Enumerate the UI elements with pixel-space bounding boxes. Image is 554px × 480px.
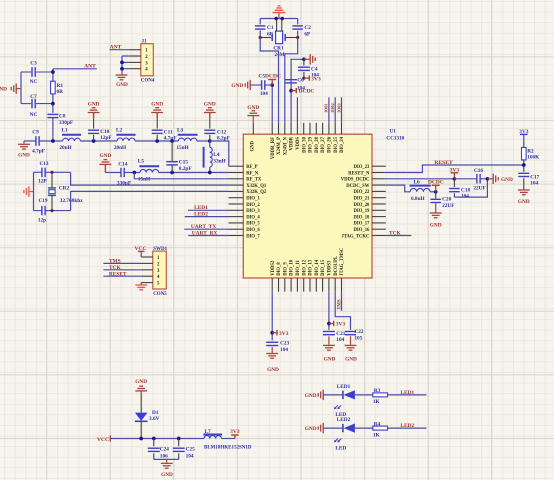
ground (C21) [323, 344, 335, 346]
wire UART_TX net [184, 228, 228, 230]
power port 3V3 (VDDS2) [272, 332, 277, 334]
wire VDDS stub [296, 97, 298, 123]
svg-text:GND: GND [305, 393, 317, 399]
svg-text:GND: GND [518, 199, 530, 205]
crystal CR1 24M [260, 37, 271, 39]
capacitor C15 8.2pF (between rows) [171, 141, 173, 162]
svg-text:X24M_N: X24M_N [283, 136, 288, 155]
wire R3 to net LED1 [388, 394, 427, 396]
capacitor C7 [21, 103, 31, 105]
svg-text:LED2: LED2 [400, 423, 414, 429]
svg-text:DIO_9: DIO_9 [283, 262, 288, 276]
pin VDDS2 (bottom) [271, 278, 273, 292]
pin DIO_25 (top) [334, 123, 336, 134]
inductor L5 15nH [139, 165, 159, 167]
pin 1 of J1 [128, 49, 141, 51]
svg-text:DIO_29: DIO_29 [309, 136, 314, 153]
svg-text:22UF: 22UF [473, 186, 485, 192]
svg-text:UART_RX: UART_RX [192, 231, 218, 237]
power port DCDC (VDDR_RF) [271, 80, 273, 85]
svg-text:12p: 12p [38, 217, 46, 223]
ground (C5 left) [249, 80, 251, 90]
pin DIO_17 (right) [372, 222, 386, 224]
svg-text:C8: C8 [59, 114, 66, 120]
svg-text:GND: GND [324, 356, 336, 362]
ground (crystal rail, bright red) [29, 191, 33, 193]
node X1 bottom [50, 209, 53, 212]
wire C3/C7 left column [20, 72, 22, 104]
svg-text:ANT: ANT [110, 45, 122, 51]
pin DCOUPL (bottom) [334, 278, 336, 292]
pin JTAG_TCKC (right) [372, 235, 386, 237]
wire L1-L2 [80, 140, 117, 142]
svg-text:CC1310: CC1310 [386, 135, 404, 141]
capacitor C22 105 [345, 331, 356, 333]
pin DIO_9 (bottom) [284, 278, 286, 292]
svg-text:3V3: 3V3 [336, 322, 346, 328]
pin X32K_Q1 (left) [229, 184, 244, 186]
pin DIO_18 (right) [372, 216, 386, 218]
svg-text:BLM18HKE152SN1D: BLM18HKE152SN1D [204, 446, 252, 451]
capacitor C1 6P [259, 19, 261, 25]
wire LED1 net [188, 209, 229, 211]
svg-text:TCK: TCK [109, 265, 121, 271]
ground (CR1 top, bright red) [278, 13, 280, 19]
wire R2 to C17 [523, 160, 525, 172]
svg-text:24M: 24M [274, 52, 284, 58]
ground (C17) [518, 189, 530, 191]
capacitor C17 104 [518, 172, 529, 174]
svg-text:DIO_27: DIO_27 [321, 136, 326, 153]
wire RF_TX branch [134, 173, 228, 179]
capacitor C13 12P [34, 171, 42, 173]
pin DIO_28 (top) [315, 123, 317, 134]
svg-text:6P: 6P [304, 32, 311, 38]
crystal CR2 32.768khz [51, 172, 53, 188]
svg-text:C22: C22 [354, 329, 363, 335]
svg-text:GND: GND [250, 140, 255, 151]
wire L6 to node [430, 191, 436, 193]
wire C9-L1 [39, 140, 63, 142]
svg-text:C19: C19 [38, 198, 47, 204]
svg-text:C3: C3 [30, 61, 37, 67]
pin DIO_7 (left) [229, 235, 244, 237]
node C4 top [302, 57, 306, 61]
svg-text:DIO_4: DIO_4 [246, 215, 260, 220]
svg-text:RF_TX: RF_TX [246, 178, 262, 183]
power port 3V3 (L7) [234, 435, 236, 438]
pin VDDR_RF (top) [271, 123, 273, 134]
pin 3 of SWD1 [141, 269, 153, 271]
ground (right of C4 node) [304, 58, 310, 60]
svg-text:GND: GND [501, 177, 513, 183]
svg-text:106: 106 [160, 453, 168, 459]
pin GND (top) [252, 123, 254, 134]
svg-text:105: 105 [354, 335, 362, 341]
svg-text:C7: C7 [30, 94, 37, 100]
svg-text:TCK: TCK [389, 230, 401, 236]
power port DCDC (VDDR) [289, 89, 293, 93]
svg-text:X24M_P: X24M_P [277, 137, 282, 155]
wire ANT to J1 pin1 [110, 49, 129, 51]
pin DIO_3 (left) [229, 209, 244, 211]
svg-text:R3: R3 [374, 388, 381, 394]
svg-text:C23: C23 [280, 341, 289, 347]
svg-text:SWD1: SWD1 [153, 247, 167, 252]
svg-text:0R: 0R [57, 89, 64, 95]
wire LED2 to R4 [355, 427, 373, 429]
svg-text:RESET: RESET [434, 160, 453, 166]
svg-text:C9: C9 [32, 130, 39, 136]
ground above C12 [204, 112, 216, 114]
pin DIO_8 (bottom) [278, 278, 280, 292]
svg-text:22UF: 22UF [442, 203, 454, 209]
ground (C22) [345, 344, 357, 346]
svg-text:DCDC_SW: DCDC_SW [346, 184, 369, 189]
svg-text:DIO_11: DIO_11 [296, 260, 301, 276]
wire JTAG_TMSC / TMS net [341, 292, 343, 311]
ground (SWD1) [135, 284, 147, 286]
svg-text:GND: GND [161, 472, 173, 478]
capacitor C14 330pF [120, 168, 122, 177]
wire LED1 to R3 [355, 394, 373, 396]
svg-text:20nH: 20nH [59, 145, 72, 151]
wire to X32K_Q1 [71, 172, 229, 185]
capacitor C19 12p [34, 210, 42, 212]
capacitor C23 104 [266, 341, 278, 343]
svg-text:DIO_6: DIO_6 [246, 228, 260, 233]
svg-text:DIO_1: DIO_1 [246, 197, 260, 202]
svg-text:3V3: 3V3 [311, 76, 321, 82]
pin DIO_2 (left) [229, 203, 244, 205]
svg-text:C13: C13 [39, 161, 48, 167]
svg-text:RESET_N: RESET_N [348, 171, 370, 176]
ground (J1) [121, 73, 123, 74]
svg-text:DIO_26: DIO_26 [328, 136, 333, 153]
svg-text:GND: GND [204, 101, 216, 107]
svg-text:DIO_19: DIO_19 [354, 209, 371, 214]
pin VDDR (top) [290, 123, 292, 134]
pin JTAG_TMSC (bottom) [341, 278, 343, 292]
capacitor C8 330pF [47, 113, 58, 115]
svg-text:DIO_5: DIO_5 [246, 222, 260, 227]
connector SWD1 CON5 [153, 251, 167, 289]
wire gnd to LED2 [323, 427, 343, 429]
svg-text:GND: GND [0, 87, 7, 93]
wire C18 bottom loop [454, 179, 487, 197]
wire gnd to LED1 [323, 394, 343, 396]
power port 3V3 (C4 bottom) [302, 77, 305, 80]
svg-text:X32K_Q2: X32K_Q2 [246, 190, 267, 195]
svg-text:1K: 1K [373, 432, 381, 438]
pin 2 of SWD1 [141, 262, 153, 264]
svg-text:X32K_Q1: X32K_Q1 [246, 184, 267, 189]
LED LED2 [342, 424, 344, 432]
svg-text:3V3: 3V3 [230, 429, 240, 435]
svg-text:GND: GND [345, 356, 357, 362]
svg-text:VCC: VCC [135, 246, 147, 252]
op-amp U1 : CC1310 IC body [243, 134, 372, 278]
power port 3V3 (VDDS_DCDC) [453, 173, 455, 179]
svg-text:3V3: 3V3 [279, 331, 289, 337]
CR1 case pins to gnd rail [276, 19, 278, 32]
svg-text:8.2pF: 8.2pF [179, 166, 192, 172]
svg-text:UART_TX: UART_TX [191, 224, 216, 230]
wire TCK net (JTAG_TCKC) [386, 235, 412, 237]
node C10 [92, 139, 96, 143]
wire DIO_24 net IO03 [341, 97, 343, 123]
svg-text:CR2: CR2 [59, 185, 70, 191]
svg-text:C14: C14 [118, 161, 127, 167]
capacitor C21 104 [323, 331, 335, 333]
resistor R2 100K [522, 147, 527, 160]
svg-text:330pF: 330pF [59, 120, 73, 126]
pin DIO_26 (top) [328, 123, 330, 134]
svg-text:RF_P: RF_P [246, 165, 258, 170]
svg-text:C21: C21 [336, 331, 345, 337]
svg-text:L6: L6 [414, 179, 421, 185]
svg-text:L3: L3 [177, 128, 184, 134]
pin DIO_19 (right) [372, 209, 386, 211]
svg-text:RESET: RESET [109, 272, 127, 278]
inductor L3 15nH [178, 134, 198, 136]
pin X24M_P (top) [278, 123, 280, 134]
capacitor C2 6P [297, 19, 299, 25]
wire SWD1 pin5 to gnd [140, 283, 142, 285]
inductor L2 20nH [116, 134, 135, 136]
resistor R3 1K [373, 393, 388, 397]
pin RESET_N (right) [372, 172, 386, 174]
svg-text:DIO_24: DIO_24 [340, 136, 345, 153]
ground (IC GND pin) [252, 116, 254, 123]
svg-text:LED2: LED2 [337, 417, 351, 423]
pin DIO_22 (right) [372, 190, 386, 192]
wire R4 to net LED2 [388, 427, 427, 429]
svg-text:LED1: LED1 [337, 384, 351, 390]
svg-text:C15: C15 [179, 160, 188, 166]
wire DIO_25 net IO02 [334, 97, 336, 123]
wire L3-C12 node [197, 140, 210, 142]
wire DIO_26 net IO01 [328, 97, 330, 123]
svg-text:DIO_3: DIO_3 [246, 209, 260, 214]
svg-text:IO02: IO02 [330, 103, 335, 112]
svg-text:DIO_7: DIO_7 [246, 234, 260, 239]
svg-text:C17: C17 [530, 174, 539, 180]
pin DIO_1 (left) [229, 197, 244, 199]
svg-text:TMS: TMS [337, 299, 342, 310]
svg-text:15nH: 15nH [176, 145, 189, 151]
svg-text:VDDS2: VDDS2 [271, 260, 276, 276]
wire C14-L5 [124, 172, 140, 174]
svg-text:L5: L5 [138, 159, 145, 165]
svg-text:C4: C4 [311, 66, 318, 72]
capacitor C6 104 [285, 79, 297, 81]
wire to X32K_Q2 [71, 191, 229, 210]
pin 2 of J1 [128, 55, 141, 57]
wire UART_RX net [188, 235, 228, 237]
wire R1 to C8 [52, 94, 54, 113]
ground (C16 right) [486, 177, 490, 181]
capacitor C11 4.7pF (shunt to gnd) [156, 135, 158, 141]
svg-text:LED2: LED2 [194, 212, 208, 218]
resistor R4 1K [373, 426, 388, 430]
svg-text:DIO_8: DIO_8 [277, 262, 282, 276]
svg-text:104: 104 [280, 347, 288, 353]
svg-text:JTAG_TMSC: JTAG_TMSC [340, 247, 345, 276]
pin 4 of SWD1 [141, 275, 153, 277]
pin DIO_29 (top) [309, 123, 311, 134]
pin DIO_24 (top) [341, 123, 343, 134]
svg-text:U1: U1 [390, 129, 397, 135]
svg-text:15nH: 15nH [138, 177, 151, 183]
pin DIO_27 (top) [322, 123, 324, 134]
pin 5 of SWD1 [141, 282, 153, 284]
wire D1 to VCC rail [140, 421, 142, 438]
wire C24/C25 gnd link [154, 458, 179, 460]
svg-text:L1: L1 [62, 128, 69, 134]
svg-text:DIO_15: DIO_15 [321, 259, 326, 276]
svg-text:IO01: IO01 [324, 103, 329, 112]
svg-text:DIO_23: DIO_23 [354, 165, 371, 170]
wire CR1 to X24M_P [260, 38, 278, 123]
svg-text:C25: C25 [186, 447, 195, 453]
wire TMS net [103, 262, 141, 264]
capacitor C10 12pF (shunt to gnd) [93, 135, 95, 141]
resistor R1 0R [51, 81, 56, 94]
svg-text:DIO_28: DIO_28 [315, 136, 320, 153]
svg-text:4.7pF: 4.7pF [32, 148, 45, 154]
pin DCDC_SW (right) [372, 184, 386, 186]
svg-text:DIO_17: DIO_17 [354, 222, 371, 227]
pin DIO_6 (left) [229, 228, 244, 230]
wire LED2 net [185, 216, 229, 218]
wire gnd rail over CR1 [260, 18, 298, 20]
pin RF_TX (left) [229, 178, 244, 180]
wire RESET net [103, 275, 141, 277]
svg-text:GND: GND [305, 426, 317, 432]
svg-text:DIO_13: DIO_13 [309, 259, 314, 276]
wire row1 to RF_P [210, 141, 229, 166]
pin DIO_30 (top) [303, 123, 305, 134]
svg-text:6.8uH: 6.8uH [411, 196, 426, 202]
svg-text:DIO_18: DIO_18 [354, 215, 371, 220]
svg-text:VCC: VCC [97, 437, 109, 443]
svg-text:VDDR_RF: VDDR_RF [271, 137, 276, 159]
svg-text:DIO_10: DIO_10 [290, 259, 295, 276]
svg-text:CON5: CON5 [153, 292, 167, 297]
pin RF_P (left) [229, 165, 244, 167]
svg-text:DIO_14: DIO_14 [315, 259, 320, 276]
svg-text:C16: C16 [474, 168, 483, 174]
svg-text:DIO_21: DIO_21 [354, 197, 371, 202]
inductor L1 20nH [62, 134, 81, 136]
wire VDDR_RF column [271, 85, 273, 123]
svg-text:VDDS: VDDS [296, 137, 301, 150]
capacitor C24 106 [153, 439, 155, 447]
pin 3 of J1 [128, 61, 141, 63]
pin DIO_23 (right) [372, 165, 386, 167]
capacitor C18 104 [453, 179, 455, 187]
svg-text:DCDC: DCDC [265, 74, 281, 80]
svg-text:104: 104 [530, 181, 538, 187]
inductor L6 6.8uH [410, 185, 431, 187]
node C11 [155, 139, 159, 143]
svg-text:DIO_2: DIO_2 [246, 203, 260, 208]
svg-text:VDDS3: VDDS3 [328, 260, 333, 276]
capacitor C16 22UF [454, 178, 477, 180]
node CR1 left [259, 36, 262, 39]
pin VDDS (top) [296, 123, 298, 134]
pin X24M_N (top) [284, 123, 286, 134]
node X1 top [50, 171, 53, 174]
svg-text:R4: R4 [374, 421, 381, 427]
wire row2 left [105, 172, 121, 174]
pin RF_N (left) [229, 172, 244, 174]
svg-text:104: 104 [336, 337, 344, 343]
svg-text:C2: C2 [304, 25, 311, 31]
wire gnd to D1 [140, 395, 142, 413]
pin DIO_11 (bottom) [296, 278, 298, 292]
svg-text:GND: GND [231, 83, 243, 89]
svg-text:32.768khz: 32.768khz [60, 198, 83, 204]
wire row1 left [24, 140, 36, 142]
svg-text:VDDS_DCDC: VDDS_DCDC [341, 178, 370, 183]
svg-text:C6: C6 [297, 78, 304, 84]
node C12 [208, 139, 212, 143]
svg-text:12pF: 12pF [100, 135, 111, 141]
wire L7 to 3V3 [221, 438, 235, 440]
pin VDDS3 (bottom) [328, 278, 330, 292]
svg-text:GND: GND [135, 379, 147, 385]
svg-text:100K: 100K [527, 154, 540, 160]
svg-text:C18: C18 [461, 187, 470, 193]
pin 1 of SWD1 [141, 256, 153, 258]
svg-text:L4: L4 [213, 152, 220, 158]
ground (row2 left, pointing up) [104, 165, 106, 173]
svg-text:DIO_16: DIO_16 [354, 228, 371, 233]
svg-text:DIO_25: DIO_25 [334, 136, 339, 153]
wire DCDC_SW to L6 [386, 185, 410, 192]
ground above C11 [151, 112, 163, 114]
capacitor C5 104 [251, 84, 262, 86]
capacitor C12 8.2pF (shunt to gnd) [209, 135, 211, 141]
svg-text:TMS: TMS [109, 259, 121, 265]
svg-text:GND: GND [247, 105, 259, 111]
svg-text:3V3: 3V3 [450, 168, 460, 174]
pin DIO_13 (bottom) [309, 278, 311, 292]
pin DIO_15 (bottom) [322, 278, 324, 292]
wire C8 to RF row [52, 118, 54, 141]
svg-text:104: 104 [186, 453, 194, 459]
svg-text:DCDC: DCDC [299, 89, 315, 95]
power port 3V3 (VDDS3) [329, 323, 334, 325]
svg-text:GND: GND [18, 153, 30, 159]
pin 4 of J1 [128, 68, 141, 70]
ground (C20) [430, 212, 442, 214]
LED LED1 [342, 391, 344, 399]
pin DIO_4 (left) [229, 216, 244, 218]
wire RESET net [386, 165, 524, 173]
capacitor C25 104 [178, 439, 180, 447]
svg-text:C10: C10 [100, 129, 109, 135]
ground (C23) [266, 353, 278, 355]
pin DIO_5 (left) [229, 222, 244, 224]
node B1 (RF_TX tap) [132, 171, 136, 175]
pin VDDS_DCDC (right) [372, 178, 386, 180]
svg-text:104: 104 [260, 91, 268, 97]
pin DIO_21 (right) [372, 197, 386, 199]
svg-text:DIO_22: DIO_22 [354, 190, 371, 195]
